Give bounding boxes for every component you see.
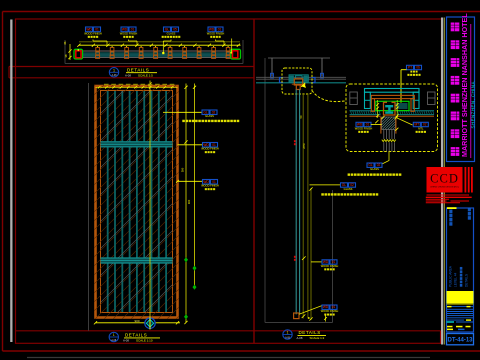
svg-text:DETAILS: DETAILS (127, 67, 149, 72)
viewport boundary: top detail (65, 40, 243, 64)
plan detail: post 10 (226, 46, 230, 58)
titleblock: project name box (447, 17, 475, 162)
svg-text:WD: WD (203, 143, 209, 147)
svg-text:DETAILS: DETAILS (125, 333, 147, 338)
viewport boundary: section (265, 58, 333, 323)
enlarged: glass below (384, 129, 395, 139)
plan detail: overall dim line (79, 41, 240, 43)
svg-text:GL: GL (342, 183, 346, 187)
callout WD01 (section) (321, 260, 339, 271)
svg-text:01: 01 (212, 180, 216, 184)
callout WD01c (plan) (207, 27, 225, 38)
bottom trim line (27, 357, 430, 359)
top red strip (9, 67, 254, 78)
section: glass verticals (296, 89, 299, 314)
svg-text:GLASS: GLASS (344, 187, 353, 191)
svg-text:02: 02 (377, 163, 381, 167)
titleblock: yellow highlight block (447, 291, 474, 305)
plan detail: post 8 (197, 46, 201, 58)
titleblock: table rows (447, 306, 474, 330)
enlarged: left leader (371, 124, 382, 126)
svg-text:1: 1 (113, 333, 115, 337)
svg-text:01: 01 (366, 123, 370, 127)
callout GL02 (below enlarged) (367, 163, 382, 171)
svg-text:WOOD FINISH: WOOD FINISH (321, 309, 339, 313)
elevation: wood frame (0, 83, 430, 320)
enlarged: dim verticals (375, 100, 398, 131)
plan callout leaders (93, 40, 224, 55)
svg-text:02: 02 (423, 123, 427, 127)
enlarged: side blocks left (350, 92, 358, 105)
below-box callout leader (382, 152, 389, 165)
elevation glass note (182, 120, 239, 122)
svg-text:01: 01 (332, 260, 336, 264)
binding gray bar right (441, 18, 443, 345)
svg-text:WD: WD (357, 123, 363, 127)
footer strip line (16, 330, 442, 332)
elevation: right dim lines (181, 84, 197, 325)
svg-text:06: 06 (416, 66, 420, 70)
svg-text:WOOD FINISH: WOOD FINISH (84, 31, 102, 35)
svg-text:GLASS: GLASS (205, 114, 214, 118)
svg-text:01: 01 (218, 28, 222, 32)
section: blue bracket right (312, 78, 316, 83)
svg-text:SCALE 1:2: SCALE 1:2 (310, 336, 325, 340)
svg-text:WOOD FINISH: WOOD FINISH (201, 184, 219, 188)
enlarged: post side rails (381, 117, 396, 134)
elevation: section bubble (145, 317, 155, 330)
svg-text:WD: WD (323, 305, 329, 309)
enlarged: cyan infill (395, 103, 408, 109)
plan detail: post 1 (96, 46, 100, 58)
enlarged: green channel (376, 101, 409, 110)
enlarged: PT leader (400, 70, 407, 103)
section: bottom dim (324, 315, 327, 322)
enlarged: yellow zigzag (382, 140, 396, 142)
enlarged: hatched post (369, 117, 407, 129)
svg-text:WD: WD (209, 28, 215, 32)
svg-text:SCALE 1:5: SCALE 1:5 (138, 74, 153, 78)
plan detail: post 3 (125, 46, 129, 58)
binding gray bar left (10, 20, 12, 343)
plan detail: left dim (64, 41, 72, 60)
section: hanger rod left (271, 58, 274, 78)
plan detail: right end block (230, 39, 240, 60)
svg-text:01: 01 (95, 28, 99, 32)
below-box glass note (348, 173, 402, 175)
svg-text:A-08: A-08 (123, 339, 129, 343)
titleblock: CCD chinese bars (465, 167, 473, 193)
svg-text:300: 300 (181, 167, 185, 172)
callout GL05 (plan) (162, 27, 181, 38)
svg-text:CCD: CCD (430, 172, 459, 186)
plan detail: post 9 (212, 46, 216, 58)
enlarged: right leader (396, 118, 413, 126)
svg-text:DT-44-13: DT-44-13 (447, 337, 473, 343)
svg-text:05: 05 (173, 28, 177, 32)
section: red joint marks (294, 140, 296, 261)
svg-text:WOOD FINISH: WOOD FINISH (201, 147, 219, 151)
svg-text:WOOD FINISH: WOOD FINISH (355, 126, 373, 130)
svg-text:WD: WD (122, 28, 128, 32)
callout WD01 (enlarged) (355, 122, 373, 133)
callout WD01b (section) (321, 305, 339, 316)
section glass note (321, 193, 378, 195)
section: dim line right (309, 187, 312, 320)
svg-text:MT: MT (414, 123, 419, 127)
plan detail: rail body (82, 51, 231, 58)
section: detail bubble dashed (282, 68, 312, 94)
svg-text:A-08: A-08 (112, 74, 118, 77)
svg-text:LEVEL 44: LEVEL 44 (454, 273, 458, 287)
svg-text:GLASS: GLASS (370, 167, 379, 171)
section: ceiling lines (256, 77, 346, 83)
callout WD01b (elevation) (201, 180, 219, 191)
svg-text:02: 02 (350, 183, 354, 187)
callout GL02 (elevation) (202, 110, 217, 118)
enlarged: steel tee (385, 105, 393, 114)
svg-text:WOOD FINISH: WOOD FINISH (321, 264, 339, 268)
title: section detail (283, 330, 326, 340)
svg-text:WOOD FINISH: WOOD FINISH (207, 31, 225, 35)
svg-text:A-08: A-08 (285, 336, 291, 339)
svg-text:CHENG CHUNG DESIGN (H.K.): CHENG CHUNG DESIGN (H.K.) (430, 187, 459, 189)
titleblock: CCD logo (427, 167, 463, 193)
enlarged: glass below2 (384, 142, 395, 151)
section: hanger rod right (321, 58, 324, 78)
svg-text:WD: WD (203, 180, 209, 184)
svg-text:GLASS: GLASS (167, 31, 176, 35)
svg-text:SHENZHEN, CHINA: SHENZHEN, CHINA (470, 81, 475, 129)
titleblock: info texts top (449, 208, 471, 226)
footer band right end tick (440, 331, 442, 344)
svg-text:300: 300 (187, 199, 191, 204)
enlarged: cyan portal frame (365, 89, 420, 109)
elevation: bottom dim (94, 319, 180, 325)
svg-text:A-08: A-08 (297, 336, 303, 340)
svg-text:DETAILS: DETAILS (299, 330, 321, 335)
red divider line (253, 19, 255, 343)
section: head assembly (289, 75, 308, 90)
svg-text:GL: GL (165, 28, 169, 32)
svg-text:MTL: MTL (418, 126, 424, 130)
elevation: slats (107, 91, 167, 312)
titleblock: project info box (447, 208, 474, 332)
callout WD01b (plan) (120, 27, 138, 38)
svg-text:WD: WD (323, 260, 329, 264)
section: slab line (268, 57, 330, 59)
olive strip line (443, 18, 445, 345)
titleblock: address lines (426, 195, 472, 203)
plan detail: post 4 (139, 46, 143, 58)
titleblock: info texts mid (449, 265, 469, 287)
svg-text:GL: GL (203, 110, 207, 114)
section leader c1 (310, 184, 341, 186)
section: bottom leader (299, 306, 322, 314)
enlarged: ceiling band left (350, 111, 381, 116)
title: elevation detail (109, 332, 160, 342)
svg-text:01: 01 (131, 28, 135, 32)
enlarged: ceiling band right (396, 111, 435, 116)
plan detail: post 5 (154, 46, 158, 58)
svg-text:A-08: A-08 (111, 339, 117, 342)
title: plan detail (109, 67, 157, 77)
callout WD01 (elevation) (201, 143, 219, 154)
viewport boundary: elevation (88, 83, 90, 331)
svg-text:A-08: A-08 (125, 74, 131, 78)
elevation: centerline (148, 81, 151, 318)
titleblock: yellow tab (447, 207, 457, 209)
inner sheet border (16, 19, 442, 343)
plan detail: left end block (74, 49, 83, 59)
titleblock: drawing number box (447, 334, 474, 345)
svg-text:DETAILS: DETAILS (465, 274, 469, 287)
svg-text:GL: GL (368, 163, 372, 167)
svg-text:WD: WD (86, 28, 92, 32)
enlarged detail: dashed border (346, 84, 438, 152)
svg-text:2850: 2850 (302, 143, 306, 149)
svg-text:900: 900 (134, 319, 139, 323)
svg-text:SCALE 1:10: SCALE 1:10 (136, 339, 153, 343)
enlarged: side blocks right (428, 92, 436, 105)
svg-text:MARRIOTT SHENZHEN NANSHAN HOTE: MARRIOTT SHENZHEN NANSHAN HOTEL (460, 13, 469, 157)
elevation: top dim (96, 84, 178, 89)
elevation: leader lines (163, 112, 203, 182)
svg-text:02: 02 (212, 110, 216, 114)
section: rotated dims (299, 115, 306, 149)
section: blue bracket left (280, 78, 284, 83)
callout WD01 (plan) (84, 27, 102, 38)
svg-text:1: 1 (287, 331, 289, 335)
plan detail: dim line with ticks (77, 44, 240, 47)
callout MT02 (enlarged) (413, 122, 428, 133)
callout PT06 (407, 65, 422, 76)
enlarged: wood header (371, 95, 414, 111)
section: wood trim verticals (303, 94, 308, 319)
svg-text:01: 01 (332, 305, 336, 309)
plan detail: post 6 (168, 46, 172, 58)
section leader c2 (311, 261, 322, 263)
elevation: rail band 2 (101, 258, 173, 264)
svg-text:1: 1 (113, 68, 115, 72)
section: dashed leader to enlarged detail (312, 91, 346, 102)
section: tick at rail (302, 256, 306, 260)
svg-text:WOOD FINISH: WOOD FINISH (120, 31, 138, 35)
elevation: rail band 1 (101, 141, 173, 147)
plan detail: post 2 (110, 46, 114, 58)
callout GL02 (section) (341, 183, 356, 191)
svg-text:01: 01 (212, 143, 216, 147)
titleblock: chinese project name (451, 23, 460, 156)
titleblock: english project name (460, 13, 471, 158)
section: floor shoe (294, 313, 310, 319)
plan detail: post 7 (183, 46, 187, 58)
svg-text:PUBLIC AREA: PUBLIC AREA (449, 265, 453, 287)
svg-text:PT: PT (408, 66, 412, 70)
enlarged: center bracket (384, 102, 396, 115)
